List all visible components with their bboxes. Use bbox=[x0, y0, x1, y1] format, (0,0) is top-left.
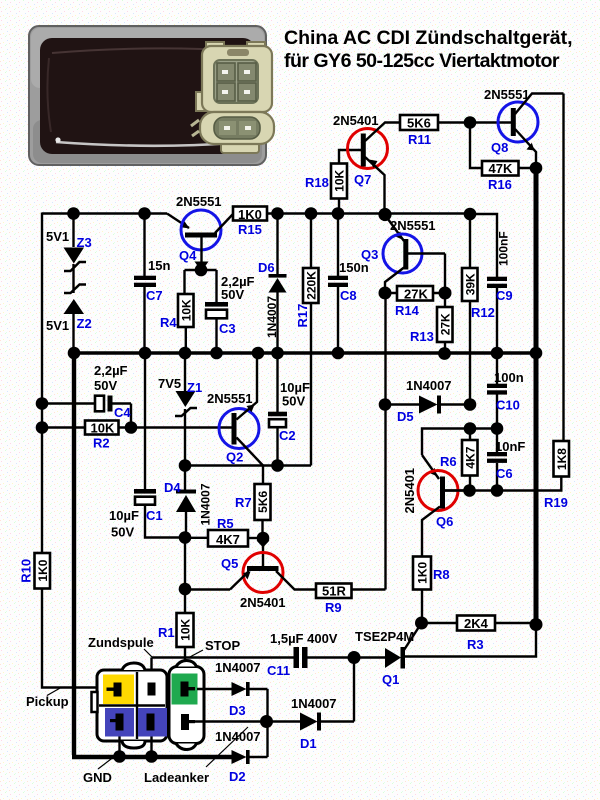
svg-text:10K: 10K bbox=[179, 299, 193, 321]
svg-text:STOP: STOP bbox=[205, 638, 240, 653]
GND rail thick x=74 bbox=[72, 353, 232, 757]
svg-text:10K: 10K bbox=[91, 421, 115, 436]
svg-text:1K0: 1K0 bbox=[416, 561, 430, 583]
node bus (Q2 collector) bbox=[252, 347, 265, 360]
capacitor C7 15n bbox=[134, 214, 170, 354]
svg-text:D2: D2 bbox=[229, 769, 246, 784]
thyristor Q1 TSE2P4M bbox=[354, 623, 422, 687]
resistor R1 10K bbox=[158, 589, 194, 676]
svg-text:C3: C3 bbox=[219, 321, 236, 336]
node bus (C9/C10) bbox=[491, 347, 504, 360]
capacitor C4 2,2uF bbox=[42, 363, 131, 428]
svg-text:R1: R1 bbox=[158, 625, 175, 640]
wire HV rail thick x=536 bbox=[534, 168, 539, 625]
svg-text:D6: D6 bbox=[258, 260, 275, 275]
svg-text:2N5401: 2N5401 bbox=[333, 113, 379, 128]
node on top bus (R12/C9) bbox=[464, 208, 477, 221]
svg-text:C7: C7 bbox=[146, 288, 163, 303]
svg-text:100n: 100n bbox=[494, 370, 524, 385]
svg-text:4K7: 4K7 bbox=[463, 446, 477, 468]
connector right shell bbox=[169, 661, 204, 750]
svg-text:Q5: Q5 bbox=[221, 556, 238, 571]
svg-text:für GY6 50-125cc Viertaktmotor: für GY6 50-125cc Viertaktmotor bbox=[284, 50, 560, 72]
svg-text:Z3: Z3 bbox=[77, 235, 92, 250]
svg-text:Q2: Q2 bbox=[226, 450, 243, 465]
transistor Q6 2N5401 bbox=[402, 455, 464, 557]
svg-text:R9: R9 bbox=[325, 600, 342, 615]
resistor R11 5K6 bbox=[400, 115, 511, 147]
node bus (HV rail) bbox=[530, 347, 543, 360]
pin Zundspule (white slot) bbox=[148, 683, 156, 696]
node HV rail bottom bbox=[530, 618, 543, 631]
transistor Q3 2N5551 bbox=[361, 215, 445, 293]
wire y=428 (Q6 emitter line) bbox=[422, 429, 497, 456]
svg-text:Ladeanker: Ladeanker bbox=[144, 770, 209, 785]
node GND 1 bbox=[113, 750, 126, 763]
node x42 C4 bbox=[36, 397, 49, 410]
svg-text:Q4: Q4 bbox=[179, 248, 197, 263]
svg-text:2N5401: 2N5401 bbox=[240, 595, 286, 610]
resistor R3 2K4 bbox=[422, 616, 537, 653]
bus y=465 bbox=[185, 464, 311, 466]
svg-text:2K4: 2K4 bbox=[464, 616, 489, 631]
svg-text:2N5551: 2N5551 bbox=[207, 391, 253, 406]
connector upper bbox=[206, 42, 224, 54]
svg-text:R8: R8 bbox=[433, 567, 450, 582]
svg-text:D3: D3 bbox=[229, 703, 246, 718]
resistor R15 1K0 bbox=[233, 207, 267, 238]
node on top bus (D6) bbox=[271, 207, 284, 220]
capacitor C2 10uF bbox=[268, 353, 310, 466]
resistor R6 4K7 bbox=[440, 429, 478, 491]
svg-text:C10: C10 bbox=[496, 398, 520, 413]
resistor R14 27K bbox=[385, 286, 445, 318]
svg-text:1K0: 1K0 bbox=[238, 207, 262, 222]
node R11/Q8 base bbox=[464, 116, 477, 129]
svg-text:1N4007: 1N4007 bbox=[199, 483, 213, 525]
svg-text:10K: 10K bbox=[179, 618, 193, 640]
svg-text:27K: 27K bbox=[438, 313, 452, 335]
svg-text:Q1: Q1 bbox=[382, 672, 399, 687]
svg-text:27K: 27K bbox=[404, 287, 428, 302]
resistor R19 1K8 bbox=[444, 441, 569, 510]
svg-text:2N5551: 2N5551 bbox=[176, 194, 222, 209]
resistor R18 10K bbox=[305, 150, 361, 214]
svg-text:C4: C4 bbox=[114, 405, 131, 420]
diode D2 1N4007 bbox=[215, 722, 268, 785]
svg-text:R16: R16 bbox=[488, 177, 512, 192]
node Q6 base / R6 bbox=[463, 484, 476, 497]
resistor R4 10K bbox=[160, 294, 194, 353]
node x42 R2 bbox=[36, 421, 49, 434]
svg-text:1N4007: 1N4007 bbox=[265, 296, 279, 338]
svg-text:Q3: Q3 bbox=[361, 247, 378, 262]
node bus (C8) bbox=[332, 347, 345, 360]
svg-text:D4: D4 bbox=[164, 480, 181, 495]
zener Z1 7V5 bbox=[158, 353, 202, 466]
resistor R5 4K7 bbox=[185, 516, 263, 547]
wire Ladeanker line y=721 bbox=[190, 720, 300, 722]
wire Q4 emitter to R4/C3 bbox=[185, 270, 217, 302]
svg-text:50V: 50V bbox=[94, 378, 117, 393]
wire node down to R16 bbox=[470, 123, 482, 169]
diode D1 1N4007 bbox=[291, 696, 354, 751]
zener Z3 bbox=[46, 214, 92, 294]
svg-text:D1: D1 bbox=[300, 736, 317, 751]
node R8/R3/Q1 gate bbox=[415, 617, 428, 630]
wire x185 down to y589 node bbox=[184, 538, 186, 590]
node R5/R7/Q5 bbox=[257, 532, 270, 545]
svg-text:1N4007: 1N4007 bbox=[215, 660, 261, 675]
wire top bus right of R15 bbox=[267, 214, 497, 278]
resistor R17 220K bbox=[295, 214, 319, 466]
diode D3 1N4007 bbox=[197, 660, 268, 722]
svg-text:C6: C6 bbox=[496, 466, 513, 481]
svg-text:47K: 47K bbox=[489, 161, 513, 176]
node Q3 emitter / R14 left bbox=[379, 287, 392, 300]
svg-text:4K7: 4K7 bbox=[216, 532, 240, 547]
svg-text:50V: 50V bbox=[221, 287, 244, 302]
svg-text:R18: R18 bbox=[305, 175, 329, 190]
node bus (C3) bbox=[210, 347, 223, 360]
transistor Q8 2N5551 bbox=[484, 87, 564, 168]
svg-text:D5: D5 bbox=[397, 409, 414, 424]
svg-text:C2: C2 bbox=[279, 428, 296, 443]
svg-text:15n: 15n bbox=[148, 258, 170, 273]
svg-text:150n: 150n bbox=[339, 260, 369, 275]
wire rail to Q1 cathode bbox=[405, 625, 536, 657]
svg-text:2,2µF: 2,2µF bbox=[94, 363, 128, 378]
svg-text:10nF: 10nF bbox=[495, 439, 525, 454]
node bus (GND rail) bbox=[68, 347, 81, 360]
wire node down to D1 line bbox=[353, 658, 355, 722]
svg-text:10K: 10K bbox=[333, 169, 347, 191]
pin Pickup (yellow) bbox=[103, 675, 134, 705]
capacitor C8 150n bbox=[328, 214, 369, 354]
svg-text:GND: GND bbox=[83, 770, 112, 785]
node on top bus (Q7 emitter) bbox=[378, 208, 391, 221]
svg-text:R19: R19 bbox=[544, 495, 568, 510]
svg-text:R5: R5 bbox=[217, 516, 234, 531]
node bus (R13) bbox=[438, 347, 451, 360]
svg-text:China AC CDI Zündschaltgerät,: China AC CDI Zündschaltgerät, bbox=[284, 27, 573, 49]
svg-text:2N5551: 2N5551 bbox=[484, 87, 530, 102]
transistor Q5 2N5401 bbox=[185, 538, 316, 610]
node D5 right bbox=[464, 398, 477, 411]
wire GND pins down bbox=[120, 737, 152, 757]
svg-text:Z1: Z1 bbox=[187, 380, 202, 395]
node R2/C4 junction bbox=[125, 421, 138, 434]
node bus (D6/C2) bbox=[271, 347, 284, 360]
svg-text:R3: R3 bbox=[467, 637, 484, 652]
resistor R2 10K bbox=[42, 421, 232, 451]
svg-text:2N5551: 2N5551 bbox=[390, 218, 436, 233]
svg-text:R6: R6 bbox=[440, 454, 457, 469]
node y465 (C2) bbox=[271, 459, 284, 472]
svg-text:C9: C9 bbox=[496, 288, 513, 303]
CDI photo bbox=[29, 26, 274, 165]
resistor R16 47K bbox=[482, 161, 536, 192]
wire x385 Q3 emitter down to R9 bbox=[384, 293, 386, 590]
svg-text:R17: R17 bbox=[295, 304, 310, 328]
resistor R7 5K6 bbox=[235, 466, 271, 539]
diode D4 1N4007 bbox=[164, 466, 213, 538]
node on top bus (R17) bbox=[305, 207, 318, 220]
capacitor C10 100n bbox=[487, 353, 524, 429]
node on top bus (R18/C8) bbox=[332, 207, 345, 220]
svg-text:1N4007: 1N4007 bbox=[406, 378, 452, 393]
wire top bus y=213 bbox=[42, 212, 167, 214]
svg-text:1N4007: 1N4007 bbox=[215, 729, 261, 744]
pin GND 2 (blue) bbox=[138, 708, 167, 737]
svg-text:R4: R4 bbox=[160, 315, 177, 330]
svg-text:51R: 51R bbox=[322, 584, 346, 599]
svg-text:R10: R10 bbox=[19, 559, 34, 583]
node bus (C7/C1) bbox=[139, 347, 152, 360]
wire x=145 bus to C1 bbox=[144, 353, 146, 489]
zener Z2 bbox=[46, 285, 92, 354]
pin STOP (green) bbox=[172, 674, 198, 705]
svg-text:10µF: 10µF bbox=[109, 508, 139, 523]
svg-text:R15: R15 bbox=[238, 222, 262, 237]
transistor Q2 2N5551 bbox=[207, 353, 263, 466]
svg-text:R11: R11 bbox=[408, 132, 431, 147]
capacitor C9 100nF bbox=[487, 231, 513, 353]
diode D5 1N4007 bbox=[385, 378, 470, 424]
capacitor C3 2,2uF electrolytic bbox=[205, 274, 255, 353]
transistor Q7 2N5401 bbox=[333, 113, 400, 214]
transistor Q4 2N5551 bbox=[167, 194, 233, 272]
svg-text:1N4007: 1N4007 bbox=[291, 696, 337, 711]
svg-text:C1: C1 bbox=[146, 508, 163, 523]
node bus (R4/Z1) bbox=[179, 347, 192, 360]
svg-text:1K0: 1K0 bbox=[36, 559, 50, 581]
svg-text:R14: R14 bbox=[395, 303, 420, 318]
resistor R12 39K bbox=[462, 214, 495, 405]
pin Ladeanker (white slot) bbox=[181, 714, 195, 730]
svg-text:R7: R7 bbox=[235, 495, 252, 510]
svg-text:5V1: 5V1 bbox=[46, 318, 69, 333]
node x185 y589 bbox=[179, 583, 192, 596]
svg-text:R13: R13 bbox=[410, 329, 434, 344]
svg-text:R12: R12 bbox=[471, 305, 495, 320]
node y428 R6 bbox=[464, 422, 477, 435]
node R16/Q8 emitter/HV rail bbox=[530, 162, 543, 175]
svg-text:C11: C11 bbox=[267, 663, 290, 678]
capacitor C11 1,5uF 400V bbox=[152, 631, 355, 678]
svg-text:Q7: Q7 bbox=[354, 172, 371, 187]
node y465 (Z1/D4) bbox=[179, 459, 192, 472]
node on top bus (Z3) bbox=[67, 207, 80, 220]
svg-text:50V: 50V bbox=[282, 394, 305, 409]
wire left vertical x=42 upper bbox=[41, 213, 43, 554]
svg-text:5V1: 5V1 bbox=[46, 229, 69, 244]
svg-text:50V: 50V bbox=[111, 525, 134, 540]
svg-text:39K: 39K bbox=[463, 273, 477, 295]
svg-text:220K: 220K bbox=[304, 271, 318, 300]
resistor R9 51R bbox=[316, 584, 386, 616]
node D5 left bbox=[379, 398, 392, 411]
svg-text:Pickup: Pickup bbox=[26, 694, 69, 709]
main bus y=353 bbox=[74, 351, 536, 355]
svg-text:Zundspule: Zundspule bbox=[88, 635, 154, 650]
svg-text:5K6: 5K6 bbox=[407, 116, 431, 131]
wire Zundspule pin down bbox=[150, 658, 152, 683]
svg-text:Q8: Q8 bbox=[491, 140, 508, 155]
resistor R8 1K0 bbox=[413, 557, 450, 624]
pin GND 1 (blue) bbox=[105, 708, 134, 737]
node D2/D3/Ladeanker bbox=[260, 715, 273, 728]
node GND 2 bbox=[145, 750, 158, 763]
capacitor C1 10uF bbox=[109, 489, 185, 540]
node C11/Q1 anode bbox=[348, 651, 361, 664]
node R14 right / Q3 base bbox=[439, 287, 452, 300]
svg-text:5K6: 5K6 bbox=[256, 490, 270, 512]
svg-text:1,5µF 400V: 1,5µF 400V bbox=[270, 631, 338, 646]
wire pickup: x42 down and right to connector bbox=[42, 589, 103, 688]
svg-text:R2: R2 bbox=[93, 436, 110, 451]
diode D6 1N4007 bbox=[258, 214, 287, 354]
resistor R10 1K0 bbox=[19, 553, 51, 589]
svg-text:1K8: 1K8 bbox=[555, 448, 569, 470]
connector lower bbox=[221, 140, 259, 153]
node y428 C6 bbox=[491, 422, 504, 435]
svg-text:2N5401: 2N5401 bbox=[402, 468, 417, 514]
node D4/C1/R5 bbox=[179, 531, 192, 544]
svg-text:100nF: 100nF bbox=[497, 231, 511, 266]
svg-text:C8: C8 bbox=[340, 288, 357, 303]
svg-text:7V5: 7V5 bbox=[158, 376, 181, 391]
node C6 bottom bbox=[491, 484, 504, 497]
svg-text:Q6: Q6 bbox=[436, 514, 453, 529]
node on top bus (C7) bbox=[138, 207, 151, 220]
capacitor C6 10nF bbox=[487, 429, 525, 491]
wire right rail x=563 bbox=[562, 94, 564, 442]
node Q4 emitter junction bbox=[195, 264, 208, 277]
resistor R13 27K bbox=[410, 293, 453, 353]
svg-text:Z2: Z2 bbox=[77, 316, 92, 331]
connector left shell bbox=[92, 663, 168, 748]
svg-text:TSE2P4M: TSE2P4M bbox=[355, 629, 414, 644]
